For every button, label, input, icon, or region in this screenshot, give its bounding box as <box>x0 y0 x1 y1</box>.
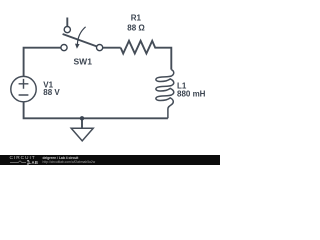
svg-text:880 mH: 880 mH <box>177 90 206 99</box>
svg-text:88 V: 88 V <box>43 88 60 97</box>
svg-text:SW1: SW1 <box>74 57 93 67</box>
svg-text:R1: R1 <box>131 14 142 23</box>
svg-text:88 Ω: 88 Ω <box>127 24 145 33</box>
